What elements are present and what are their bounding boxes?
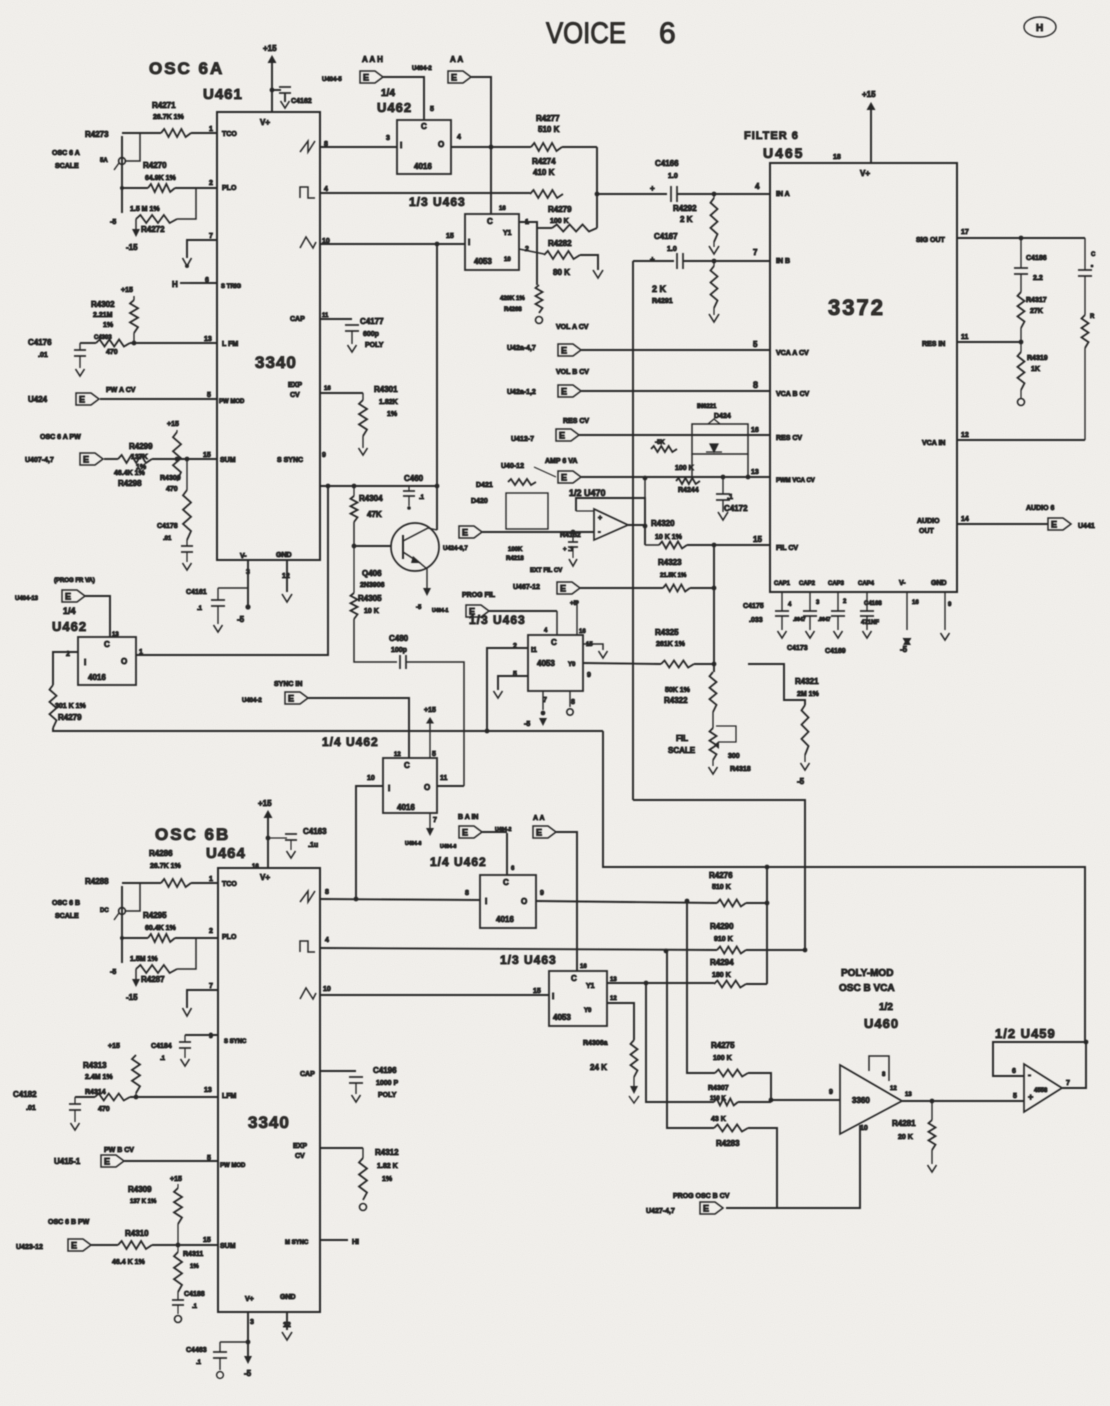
svg-text:1: 1	[209, 126, 213, 133]
svg-text:300: 300	[728, 753, 740, 760]
svg-text:R4310: R4310	[125, 1229, 149, 1238]
svg-text:301 K 1%: 301 K 1%	[55, 703, 87, 710]
svg-text:1/4: 1/4	[63, 606, 76, 616]
svg-text:-5: -5	[110, 969, 116, 976]
svg-text:C4161: C4161	[186, 589, 207, 596]
svg-text:12: 12	[961, 432, 969, 439]
svg-text:E: E	[363, 73, 369, 83]
svg-text:R4309: R4309	[128, 1185, 152, 1194]
svg-text:9: 9	[322, 452, 326, 459]
svg-text:OSC 6B: OSC 6B	[155, 825, 230, 844]
svg-text:PW B CV: PW B CV	[104, 1147, 134, 1154]
svg-text:43 K: 43 K	[711, 1116, 726, 1123]
svg-text:E: E	[462, 828, 468, 838]
svg-text:FIL: FIL	[676, 734, 688, 743]
svg-text:PLO: PLO	[222, 185, 237, 192]
svg-text:I: I	[84, 658, 86, 667]
svg-text:1%: 1%	[103, 322, 114, 329]
svg-text:OUT: OUT	[919, 528, 935, 535]
svg-text:2.21M: 2.21M	[93, 312, 113, 319]
svg-text:LFM: LFM	[222, 1093, 237, 1100]
svg-text:S SYNC: S SYNC	[277, 457, 303, 464]
svg-text:16: 16	[252, 864, 259, 870]
svg-text:Y0: Y0	[584, 1008, 592, 1014]
svg-text:POLY-MOD: POLY-MOD	[841, 968, 893, 979]
svg-text:1.5M 1%: 1.5M 1%	[130, 956, 158, 963]
svg-text:9: 9	[587, 672, 591, 679]
svg-text:EXT FIL CV: EXT FIL CV	[530, 568, 562, 574]
svg-text:POLY: POLY	[365, 342, 384, 349]
svg-text:I: I	[388, 784, 390, 793]
svg-text:R4298: R4298	[118, 479, 142, 488]
svg-text:V+: V+	[245, 1296, 254, 1303]
svg-text:C: C	[503, 878, 509, 887]
svg-text:PROG FIL: PROG FIL	[462, 592, 496, 599]
svg-text:10 K 1%: 10 K 1%	[655, 534, 683, 541]
svg-text:CAP4: CAP4	[858, 581, 875, 587]
svg-text:R4273: R4273	[85, 130, 109, 139]
svg-text:D420: D420	[471, 498, 488, 505]
svg-text:FILTER 6: FILTER 6	[744, 130, 799, 142]
svg-text:I: I	[552, 992, 554, 1001]
svg-text:GND: GND	[280, 1294, 296, 1301]
svg-text:E: E	[462, 528, 468, 538]
svg-text:R4292: R4292	[673, 204, 697, 213]
svg-text:CAP: CAP	[290, 316, 305, 323]
svg-text:4016: 4016	[496, 915, 514, 924]
svg-text:+: +	[1028, 1092, 1033, 1102]
svg-text:510 K: 510 K	[712, 884, 731, 891]
svg-text:C4463: C4463	[186, 1347, 207, 1354]
svg-text:GND: GND	[276, 552, 292, 559]
svg-text:C480: C480	[389, 634, 409, 643]
svg-text:U404-13: U404-13	[15, 596, 39, 602]
svg-text:U407-4,7: U407-4,7	[25, 457, 54, 464]
svg-text:R4283: R4283	[716, 1139, 740, 1148]
svg-text:E: E	[65, 592, 71, 602]
svg-text:2: 2	[209, 180, 213, 187]
svg-text:H: H	[1036, 23, 1043, 34]
svg-text:10 K: 10 K	[364, 608, 379, 615]
svg-text:O: O	[121, 657, 127, 666]
svg-text:R4218: R4218	[506, 556, 524, 562]
svg-text:E: E	[560, 584, 566, 594]
svg-text:4: 4	[755, 182, 760, 191]
svg-text:RES CV: RES CV	[776, 435, 802, 442]
svg-text:TCO: TCO	[222, 881, 237, 888]
svg-text:I: I	[400, 141, 402, 150]
svg-text:C4162: C4162	[291, 98, 312, 105]
svg-text:C4168: C4168	[864, 601, 882, 607]
svg-text:R4323: R4323	[658, 558, 682, 567]
svg-text:24 K: 24 K	[590, 1063, 607, 1072]
svg-text:AMP 6 VA: AMP 6 VA	[545, 458, 577, 465]
svg-text:9: 9	[829, 1089, 833, 1096]
svg-text:TCO: TCO	[222, 131, 237, 138]
svg-text:C: C	[487, 217, 493, 226]
svg-text:16: 16	[912, 600, 919, 606]
svg-text:C4303: C4303	[94, 335, 112, 341]
svg-text:D421: D421	[476, 482, 493, 489]
svg-text:1K: 1K	[1031, 366, 1040, 373]
svg-text:U404-6: U404-6	[440, 844, 457, 850]
svg-text:PROG OSC B CV: PROG OSC B CV	[673, 1193, 730, 1200]
svg-text:5: 5	[432, 751, 436, 758]
svg-text:-: -	[1028, 1070, 1031, 1080]
svg-text:R4299: R4299	[129, 442, 153, 451]
svg-text:I: I	[468, 238, 470, 247]
svg-text:CAP2: CAP2	[799, 581, 816, 587]
svg-text:V+: V+	[260, 873, 270, 882]
svg-text:46.4 K 1%: 46.4 K 1%	[112, 1259, 145, 1266]
svg-text:R4295: R4295	[143, 911, 167, 920]
svg-text:B A IN: B A IN	[458, 814, 478, 821]
svg-text:470: 470	[166, 486, 178, 493]
svg-text:4: 4	[457, 134, 461, 141]
svg-text:7: 7	[209, 983, 213, 990]
svg-text:R4272: R4272	[141, 225, 165, 234]
svg-text:R4307: R4307	[708, 1085, 729, 1092]
svg-text:R4305: R4305	[358, 594, 382, 603]
svg-text:O: O	[438, 140, 444, 149]
svg-text:OSC 6 B PW: OSC 6 B PW	[48, 1219, 90, 1226]
svg-text:12: 12	[890, 1086, 897, 1092]
svg-text:H: H	[172, 280, 178, 289]
svg-text:V-: V-	[240, 553, 247, 560]
svg-text:E: E	[451, 73, 457, 83]
svg-text:+15: +15	[108, 1043, 120, 1050]
svg-text:1/4: 1/4	[381, 88, 395, 99]
svg-text:-5: -5	[416, 605, 422, 611]
svg-text:1.5 M 1%: 1.5 M 1%	[130, 206, 160, 213]
svg-text:-5: -5	[524, 721, 530, 728]
svg-text:26.7K 1%: 26.7K 1%	[153, 114, 185, 121]
svg-text:U404-2: U404-2	[495, 827, 512, 833]
svg-text:U462: U462	[377, 100, 412, 115]
svg-text:EXP: EXP	[293, 1143, 307, 1150]
svg-text:E: E	[288, 694, 294, 704]
svg-text:R4304: R4304	[359, 494, 383, 503]
svg-text:PWM VCA CV: PWM VCA CV	[776, 478, 815, 484]
svg-text:U40-12: U40-12	[501, 463, 524, 470]
svg-text:S TRIG: S TRIG	[221, 284, 241, 290]
svg-text:64.9K 1%: 64.9K 1%	[145, 175, 177, 182]
svg-text:261K 1%: 261K 1%	[656, 641, 686, 648]
svg-text:R4276: R4276	[709, 871, 733, 880]
svg-text:U415-1: U415-1	[54, 1157, 81, 1166]
svg-text:U424: U424	[28, 395, 48, 404]
svg-text:.1: .1	[419, 495, 425, 501]
svg-text:E: E	[469, 607, 475, 617]
svg-text:.1u: .1u	[308, 842, 318, 849]
svg-text:2.2: 2.2	[1033, 275, 1043, 282]
svg-text:3360: 3360	[852, 1096, 870, 1105]
svg-text:R: R	[1090, 314, 1095, 320]
svg-text:R4270: R4270	[143, 161, 167, 170]
svg-text:1/3 U463: 1/3 U463	[409, 195, 466, 209]
svg-text:D424: D424	[714, 413, 731, 420]
svg-text:17: 17	[961, 229, 969, 236]
svg-text:7: 7	[753, 248, 758, 257]
svg-text:U404-5: U404-5	[322, 77, 342, 83]
svg-text:15: 15	[586, 642, 593, 648]
svg-text:.033: .033	[749, 617, 763, 624]
svg-text:13: 13	[204, 1087, 212, 1094]
svg-text:E: E	[83, 455, 89, 465]
svg-text:11: 11	[961, 334, 969, 341]
svg-text:R4281: R4281	[892, 1119, 916, 1128]
svg-text:80 K: 80 K	[553, 268, 570, 277]
svg-text:U404-2: U404-2	[242, 698, 262, 704]
svg-text:O: O	[424, 783, 430, 792]
svg-text:7: 7	[1066, 1080, 1070, 1087]
svg-text:1/3 U463: 1/3 U463	[500, 953, 557, 967]
svg-text:VCA IN: VCA IN	[922, 440, 945, 447]
svg-text:E: E	[71, 1241, 77, 1251]
svg-text:M SYNC: M SYNC	[285, 1240, 309, 1246]
svg-text:-5K: -5K	[655, 440, 665, 446]
svg-text:I1: I1	[531, 647, 537, 654]
svg-text:20 K: 20 K	[898, 1134, 913, 1141]
svg-text:5A: 5A	[100, 158, 108, 164]
svg-text:C: C	[404, 761, 410, 770]
svg-text:12: 12	[394, 752, 401, 758]
svg-text:CAP: CAP	[300, 1071, 315, 1078]
svg-text:3: 3	[250, 1319, 254, 1326]
svg-text:U460: U460	[864, 1016, 899, 1031]
svg-text:4016: 4016	[414, 162, 432, 171]
svg-text:R4314: R4314	[85, 1089, 106, 1096]
svg-text:R4302: R4302	[91, 300, 115, 309]
svg-text:10: 10	[323, 986, 331, 993]
svg-text:C4177: C4177	[360, 317, 384, 326]
svg-text:3372: 3372	[828, 295, 885, 320]
svg-text:13: 13	[204, 336, 212, 343]
svg-text:C: C	[104, 640, 110, 649]
svg-text:E: E	[703, 1204, 709, 1214]
svg-text:1%: 1%	[136, 464, 147, 471]
svg-text:R4312: R4312	[375, 1148, 399, 1157]
svg-text:SYNC IN: SYNC IN	[274, 681, 302, 688]
svg-text:PLO: PLO	[222, 934, 237, 941]
svg-text:-5: -5	[797, 777, 805, 786]
svg-text:OSC B VCA: OSC B VCA	[839, 983, 895, 994]
svg-text:1/2 U459: 1/2 U459	[995, 1026, 1056, 1041]
svg-text:C4166: C4166	[655, 159, 679, 168]
svg-text:C4182: C4182	[13, 1090, 37, 1099]
svg-text:+15: +15	[424, 707, 436, 714]
svg-text:R4321: R4321	[795, 677, 819, 686]
svg-text:AUDIO 6: AUDIO 6	[1026, 505, 1055, 512]
svg-text:R4320: R4320	[651, 519, 675, 528]
svg-text:60.4K 1%: 60.4K 1%	[145, 925, 177, 932]
svg-text:E: E	[561, 473, 567, 483]
svg-text:R4319: R4319	[1027, 355, 1048, 362]
svg-text:12: 12	[610, 996, 617, 1002]
svg-text:C4173: C4173	[787, 645, 808, 652]
svg-text:4: 4	[325, 937, 329, 944]
svg-text:471NF: 471NF	[861, 620, 879, 626]
svg-text:R4152: R4152	[560, 532, 581, 539]
svg-text:E: E	[536, 828, 542, 838]
svg-text:+15: +15	[121, 287, 133, 294]
svg-text:U404-2: U404-2	[412, 66, 432, 72]
svg-text:6: 6	[659, 17, 676, 50]
svg-text:R4294: R4294	[710, 958, 734, 967]
svg-text:C4176: C4176	[28, 338, 52, 347]
svg-text:15: 15	[203, 452, 211, 459]
svg-text:+ .1: + .1	[563, 547, 574, 553]
svg-text:U461: U461	[203, 86, 243, 103]
svg-text:-: -	[598, 527, 601, 536]
svg-text:R4279: R4279	[58, 713, 82, 722]
svg-text:U404-6: U404-6	[405, 841, 422, 847]
svg-text:E: E	[561, 346, 567, 356]
svg-text:2 K: 2 K	[680, 215, 693, 224]
svg-text:8: 8	[753, 380, 758, 390]
svg-text:R4287: R4287	[141, 975, 165, 984]
svg-text:470: 470	[106, 349, 118, 356]
svg-text:HI: HI	[352, 1239, 359, 1246]
svg-text:SUM: SUM	[220, 1243, 236, 1250]
svg-text:.1: .1	[197, 606, 203, 612]
svg-text:R4291: R4291	[652, 298, 673, 305]
svg-text:.01: .01	[163, 536, 172, 542]
svg-text:27K: 27K	[1030, 308, 1043, 315]
svg-text:15: 15	[533, 988, 541, 995]
svg-text:C: C	[1091, 252, 1096, 258]
svg-text:OSC 6 A PW: OSC 6 A PW	[40, 434, 81, 441]
svg-text:.0047: .0047	[793, 617, 806, 623]
svg-text:.1: .1	[160, 1056, 166, 1062]
svg-text:137 K 1%: 137 K 1%	[130, 1199, 157, 1205]
svg-text:16: 16	[579, 629, 586, 635]
svg-text:100p: 100p	[391, 647, 407, 654]
svg-text:180 K: 180 K	[712, 972, 731, 979]
svg-text:I: I	[485, 897, 487, 906]
svg-text:R4317: R4317	[1026, 297, 1047, 304]
svg-text:.01: .01	[38, 352, 48, 359]
svg-text:4053: 4053	[474, 257, 492, 266]
svg-text:Y0: Y0	[568, 662, 576, 668]
svg-text:U42a-1,2: U42a-1,2	[507, 389, 536, 396]
svg-text:5: 5	[1013, 1093, 1017, 1100]
svg-text:VCA B CV: VCA B CV	[776, 391, 810, 398]
svg-text:8: 8	[571, 699, 575, 706]
svg-text:OSC 6 A: OSC 6 A	[52, 150, 80, 157]
svg-text:-5: -5	[110, 219, 116, 226]
svg-text:4016: 4016	[397, 803, 415, 812]
svg-text:C4188: C4188	[184, 1291, 205, 1298]
svg-text:5: 5	[207, 392, 211, 399]
svg-text:R4290: R4290	[710, 922, 734, 931]
svg-text:R4300: R4300	[160, 475, 181, 482]
svg-text:+15: +15	[167, 421, 179, 428]
svg-text:600p: 600p	[363, 331, 379, 338]
svg-text:C4196: C4196	[373, 1066, 397, 1075]
svg-text:R4322: R4322	[664, 696, 688, 705]
svg-text:E: E	[1051, 520, 1057, 530]
svg-text:3: 3	[386, 135, 390, 142]
svg-text:VCA A CV: VCA A CV	[776, 350, 809, 357]
svg-text:C4178: C4178	[157, 523, 178, 530]
svg-text:C: C	[571, 974, 577, 983]
svg-text:C: C	[421, 122, 427, 131]
svg-text:SCALE: SCALE	[55, 913, 79, 920]
svg-text:1/4 U462: 1/4 U462	[430, 855, 487, 869]
svg-text:Q406: Q406	[362, 569, 382, 578]
svg-text:E: E	[559, 431, 565, 441]
svg-text:4053: 4053	[553, 1013, 571, 1022]
svg-text:13: 13	[905, 1092, 912, 1098]
svg-text:V-: V-	[899, 580, 906, 587]
svg-text:47K: 47K	[367, 510, 382, 519]
svg-text:100 K: 100 K	[675, 465, 694, 472]
svg-text:14: 14	[961, 516, 969, 523]
svg-text:2.4M 1%: 2.4M 1%	[85, 1074, 113, 1081]
svg-text:-5: -5	[244, 1369, 252, 1378]
svg-text:-15: -15	[126, 243, 138, 252]
svg-text:R4274: R4274	[532, 157, 556, 166]
svg-text:15: 15	[753, 535, 762, 544]
svg-text:13: 13	[751, 469, 759, 476]
svg-text:R4279: R4279	[548, 205, 572, 214]
svg-text:3340: 3340	[248, 1113, 290, 1132]
svg-text:8: 8	[325, 889, 329, 896]
svg-text:1: 1	[209, 876, 213, 883]
svg-text:.01: .01	[26, 1105, 36, 1112]
svg-text:510 K: 510 K	[538, 125, 560, 134]
svg-text:7: 7	[433, 817, 437, 824]
svg-text:U467-12: U467-12	[513, 584, 540, 591]
svg-text:Y1: Y1	[586, 983, 595, 990]
svg-text:4053: 4053	[537, 659, 555, 668]
svg-text:R4286: R4286	[149, 849, 173, 858]
svg-text:C4172: C4172	[724, 504, 748, 513]
svg-text:-5: -5	[237, 615, 245, 624]
svg-text:1%: 1%	[382, 1176, 393, 1183]
svg-text:U404-1: U404-1	[432, 608, 449, 614]
svg-text:V+: V+	[860, 169, 870, 178]
svg-text:FIL CV: FIL CV	[776, 545, 798, 552]
svg-text:+15: +15	[170, 1176, 182, 1183]
svg-text:R4313: R4313	[83, 1061, 107, 1070]
svg-text:R4301: R4301	[374, 385, 398, 394]
svg-text:IN6221: IN6221	[697, 404, 717, 410]
svg-text:U424-6,7: U424-6,7	[443, 546, 468, 552]
svg-text:16: 16	[751, 427, 759, 434]
svg-text:-5: -5	[900, 645, 908, 654]
svg-text:+: +	[650, 184, 655, 193]
svg-text:V+: V+	[260, 118, 270, 127]
svg-text:Y1: Y1	[503, 230, 512, 237]
svg-text:100 K: 100 K	[713, 1055, 732, 1062]
svg-text:12: 12	[282, 573, 290, 580]
svg-text:.1: .1	[727, 494, 733, 501]
svg-text:10: 10	[504, 257, 511, 263]
svg-text:C4163: C4163	[303, 827, 327, 836]
svg-text:C4186: C4186	[1026, 255, 1047, 262]
svg-text:R4325: R4325	[655, 628, 679, 637]
svg-text:15: 15	[446, 233, 454, 240]
svg-text:E: E	[79, 395, 85, 405]
svg-text:SIG OUT: SIG OUT	[916, 237, 946, 244]
svg-text:21.5K 1%: 21.5K 1%	[660, 573, 687, 579]
svg-text:+: +	[650, 255, 655, 264]
svg-text:EXP: EXP	[288, 382, 302, 389]
svg-text:POLY: POLY	[378, 1092, 397, 1099]
svg-text:5: 5	[753, 340, 758, 349]
